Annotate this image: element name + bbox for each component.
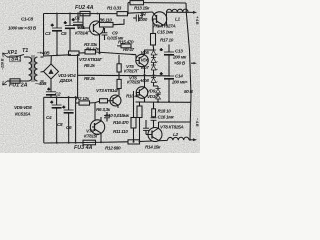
- wire vd to mid: [157, 100, 159, 103]
- wire output mid tap: [191, 62, 194, 64]
- node 0v c14: [168, 75, 170, 77]
- resistor R4: [85, 50, 96, 54]
- node bottom 5: [133, 141, 135, 143]
- node top bus 6: [141, 12, 143, 14]
- arrow output plus: [193, 11, 197, 14]
- capacitor C10: [104, 112, 110, 122]
- resistor R7: [100, 99, 108, 103]
- resistor R18: [152, 102, 156, 118]
- wire base line b: [90, 101, 100, 103]
- wire output minus: [189, 139, 194, 141]
- wire c11 node: [141, 13, 143, 18]
- wire bridge top: [50, 56, 52, 64]
- fuse FU1: [10, 79, 20, 83]
- node 0v a: [118, 74, 120, 76]
- node top bus 5: [127, 12, 129, 14]
- resistor R2: [79, 101, 90, 105]
- node top bus 1: [56, 13, 58, 15]
- resistor R3: [69, 51, 80, 55]
- wire bottom bus mid: [96, 141, 129, 144]
- wire right rail: [186, 12, 191, 139]
- node output plus: [185, 11, 187, 13]
- capacitor C14: [160, 71, 174, 102]
- wire mid line plus c: [96, 52, 137, 55]
- wire secondary tap bottom: [41, 80, 44, 82]
- transistor VT7: [110, 95, 121, 108]
- transistor VT8: [146, 122, 162, 142]
- node 0v b: [144, 74, 146, 76]
- resistor R13: [130, 1, 144, 5]
- wire bottom bus: [44, 142, 83, 144]
- wire aux down right: [185, 3, 187, 12]
- wire zener bottom: [154, 83, 159, 87]
- node mid minus 2: [68, 96, 70, 98]
- node 0v zener: [153, 74, 155, 76]
- wire top bus right: [128, 12, 153, 13]
- resistor R8v: [117, 75, 121, 95]
- transistor VT2 top: [83, 13, 104, 35]
- wire top bus: [44, 13, 118, 15]
- wire 0V vertical: [77, 55, 79, 98]
- switch SA1: [15, 55, 24, 58]
- wire aux up: [127, 3, 129, 14]
- capacitor C12: [143, 120, 149, 135]
- capacitor C11: [133, 15, 142, 22]
- capacitor C16: [151, 118, 157, 128]
- wire vt8 top: [159, 121, 191, 123]
- zener VD7: [151, 63, 158, 71]
- node mid 1: [56, 54, 58, 56]
- wire left rail bottom: [43, 97, 45, 143]
- wire mid line plus b: [79, 52, 85, 54]
- transistor VT6: [136, 76, 148, 103]
- wire output plus: [167, 11, 194, 13]
- resistor R18v: [137, 102, 142, 142]
- plug XP1 prong top: [3, 53, 7, 57]
- node bottom 4: [100, 141, 102, 143]
- node bottom 1: [56, 142, 58, 144]
- transistor VT1: [152, 12, 166, 28]
- wire plug bottom: [7, 80, 10, 82]
- resistor R6: [100, 19, 125, 27]
- node vt2e plus: [99, 52, 101, 54]
- wire vt3 to bus: [100, 137, 102, 142]
- wire vt4 emitter column: [75, 97, 77, 143]
- capacitor C13: [160, 45, 174, 77]
- wire base line minus: [76, 102, 79, 104]
- wire mid line minus: [44, 96, 78, 98]
- resistor R17: [151, 28, 156, 48]
- resistor R5v: [117, 55, 121, 76]
- wire vt3 base up: [94, 103, 96, 124]
- zener VD6: [151, 55, 158, 63]
- node bottom 2: [68, 142, 70, 144]
- transistor VT4 mid: [0, 0, 1, 1]
- arrow output minus: [193, 138, 197, 141]
- resistor R16: [131, 91, 136, 142]
- fuse FU2: [80, 11, 90, 15]
- wire secondary taps: [41, 56, 44, 58]
- node 0v left: [77, 54, 79, 56]
- wire mid right: [136, 101, 191, 103]
- transformer T1 core: [32, 55, 34, 82]
- plug XP1 prong bottom: [3, 81, 7, 85]
- resistor R12: [128, 140, 140, 144]
- wire bridge left: [41, 71, 44, 74]
- capacitor C4 column: [51, 97, 62, 143]
- resistor R1: [117, 12, 128, 16]
- switch SA1 frame: [10, 56, 20, 62]
- bridge VD1-VD4: [44, 64, 59, 79]
- resistor R15: [117, 44, 131, 48]
- capacitor C9: [102, 28, 108, 40]
- diode VD10: [156, 93, 161, 99]
- capacitor C6 column: [63, 97, 74, 143]
- fuse FU3: [83, 140, 96, 145]
- node top bus 2: [69, 13, 71, 15]
- wire mid line minus c: [108, 100, 111, 102]
- node output minus: [189, 139, 191, 141]
- transformer T1 primary: [29, 57, 32, 81]
- wire fuse to transformer: [20, 80, 29, 82]
- capacitor C1 column: [51, 14, 62, 56]
- node bottom 3: [75, 142, 77, 144]
- wire vt2 emitter down: [99, 35, 101, 54]
- node bottom 6: [139, 141, 141, 143]
- inductor L1: [166, 9, 188, 12]
- wire plug top: [7, 56, 15, 58]
- transistor VT5: [136, 50, 153, 74]
- zener VD8: [151, 70, 158, 83]
- node c14 bottom: [168, 101, 170, 103]
- transistor VT3: [90, 117, 104, 137]
- wire 0V rail: [78, 74, 169, 77]
- wire mid line plus: [44, 55, 70, 56]
- wire aux top line: [128, 2, 130, 4]
- node mid 2: [69, 54, 71, 56]
- node top bus 4: [97, 13, 99, 15]
- arrow output mid: [194, 62, 197, 64]
- capacitor C5 column: [64, 14, 75, 55]
- wire vd10 down: [157, 99, 159, 102]
- node mid minus 3: [75, 96, 77, 98]
- node mid right: [157, 101, 159, 103]
- inductor L2: [167, 137, 189, 140]
- capacitor C2 on bridge leg: [46, 79, 56, 97]
- capacitor C7 column: [72, 13, 83, 28]
- wire left rail top: [43, 14, 45, 57]
- wire switch to transformer: [24, 56, 29, 58]
- node top bus 3: [77, 12, 79, 14]
- wire bottom bus right: [140, 140, 168, 141]
- zener VD5: [151, 48, 158, 56]
- diode VD9: [156, 86, 161, 93]
- node mid minus 1: [56, 96, 58, 98]
- wire aux top line right: [144, 2, 187, 4]
- transformer T1 secondary: [35, 57, 38, 81]
